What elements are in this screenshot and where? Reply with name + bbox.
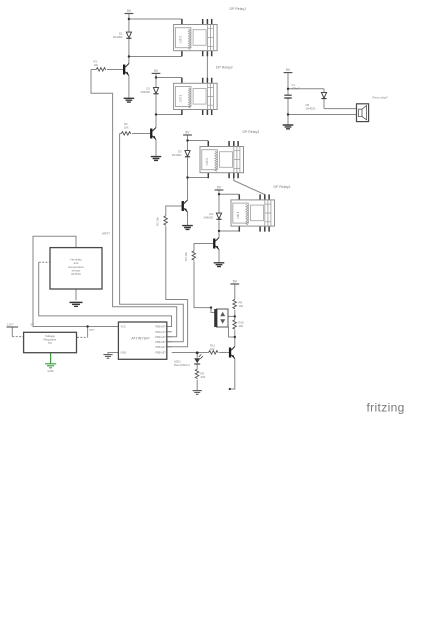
svg-text:fritzing: fritzing xyxy=(367,401,405,415)
svg-text:1N4002: 1N4002 xyxy=(113,35,123,39)
svg-text:LED1: LED1 xyxy=(174,360,181,364)
svg-text:470uF: 470uF xyxy=(292,87,300,91)
svg-text:5V: 5V xyxy=(31,323,35,327)
svg-text:5V: 5V xyxy=(48,341,52,345)
svg-text:PB4/A4?: PB4/A4? xyxy=(155,345,166,349)
svg-text:PB3/A3?: PB3/A3? xyxy=(155,340,166,344)
svg-text:5V?: 5V? xyxy=(90,328,95,332)
svg-text:R4 10k: R4 10k xyxy=(184,252,188,261)
svg-text:10k: 10k xyxy=(94,63,99,67)
svg-text:GND: GND xyxy=(121,351,127,355)
svg-text:PB0/A0?: PB0/A0? xyxy=(155,325,166,329)
svg-text:WRT?: WRT? xyxy=(102,232,110,236)
svg-text:R3 10k: R3 10k xyxy=(156,217,160,226)
svg-text:10k: 10k xyxy=(210,347,215,351)
svg-text:1N4002: 1N4002 xyxy=(140,90,150,94)
svg-text:220: 220 xyxy=(201,375,206,379)
svg-text:DP Relay4: DP Relay4 xyxy=(274,185,291,189)
svg-text:10k: 10k xyxy=(124,126,129,130)
svg-text:DP Relay1: DP Relay1 xyxy=(230,7,247,11)
svg-text:PB5/A5?: PB5/A5? xyxy=(155,351,166,355)
svg-text:DP Relay3: DP Relay3 xyxy=(243,130,260,134)
svg-text:PB2/A2?: PB2/A2? xyxy=(155,335,166,339)
svg-text:Red (633nm): Red (633nm) xyxy=(174,363,190,367)
svg-text:DP Relay2: DP Relay2 xyxy=(216,66,233,70)
svg-text:VCC: VCC xyxy=(121,325,127,329)
svg-text:Piezo okay?: Piezo okay? xyxy=(373,96,389,100)
svg-text:PB1/A1?: PB1/A1? xyxy=(155,330,166,334)
svg-text:10k: 10k xyxy=(239,304,244,308)
svg-text:12V?: 12V? xyxy=(7,323,14,327)
svg-text:GND: GND xyxy=(47,369,53,373)
svg-text:10k: 10k xyxy=(239,324,244,328)
svg-text:ATTINY84?: ATTINY84? xyxy=(131,337,150,341)
svg-text:1N4002: 1N4002 xyxy=(306,107,316,111)
svg-text:RHT03: RHT03 xyxy=(71,272,81,276)
svg-text:1N4002: 1N4002 xyxy=(172,153,182,157)
svg-text:1N4002: 1N4002 xyxy=(203,216,213,220)
